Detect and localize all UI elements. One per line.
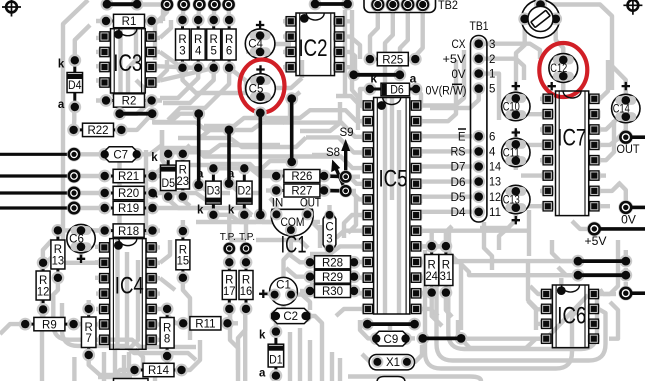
capacitor C7: [98, 148, 111, 161]
svg-text:R: R: [225, 275, 233, 287]
svg-text:13: 13: [489, 177, 501, 189]
capacitor C14: [612, 94, 640, 122]
wire vertical 3: [254, 107, 267, 120]
svg-text:D2: D2: [238, 186, 252, 198]
svg-text:C7: C7: [113, 150, 128, 162]
plus of C12: [548, 82, 556, 90]
resistor R22: [74, 128, 122, 131]
wire R26 to S9 pad: [324, 174, 346, 178]
resistor R5: [212, 20, 215, 68]
svg-text:D7: D7: [451, 162, 466, 174]
resistor R18: [105, 229, 153, 232]
svg-text:C1: C1: [276, 280, 291, 292]
svg-text:R26: R26: [291, 171, 312, 183]
wire right 2: [572, 269, 585, 282]
resistor R25: [370, 58, 415, 61]
plus of C11: [512, 128, 520, 136]
svg-text:R19: R19: [118, 203, 139, 215]
svg-text:R28: R28: [322, 258, 343, 270]
resistor R15: [181, 231, 184, 278]
diode D3: [212, 168, 215, 215]
plus of C10: [512, 82, 520, 90]
wire above IC2: [309, 0, 322, 10]
svg-text:IC2: IC2: [299, 35, 328, 62]
svg-text:6: 6: [489, 131, 495, 143]
capacitor C2: [270, 310, 283, 323]
svg-text:24: 24: [425, 271, 438, 283]
resistor R7: [87, 309, 90, 355]
voltage regulator IC1: [271, 209, 313, 236]
resistor R2: [106, 99, 152, 102]
via pad left 3: [67, 186, 81, 200]
plus of C4: [256, 21, 264, 29]
resistor R31: [444, 246, 447, 293]
svg-text:a: a: [151, 189, 158, 201]
svg-text:RS: RS: [451, 147, 466, 159]
plus of C14: [622, 82, 630, 90]
resistor R24: [430, 246, 433, 293]
svg-text:0V: 0V: [452, 69, 466, 81]
header pads top: [160, 0, 174, 12]
capacitor C12: [549, 54, 578, 83]
svg-text:D4: D4: [68, 80, 82, 92]
diode D1: [274, 332, 277, 376]
svg-text:k: k: [197, 204, 204, 216]
via pad left 2: [67, 169, 81, 183]
svg-text:0V(R/W): 0V(R/W): [426, 86, 467, 98]
svg-text:C10: C10: [503, 102, 520, 114]
svg-text:k: k: [370, 72, 377, 86]
capacitor C5: [246, 74, 276, 104]
resistor R13: [56, 230, 59, 277]
wire right of C9: [416, 332, 429, 345]
microcontroller IC5: [362, 102, 374, 109]
svg-text:23: 23: [177, 176, 190, 188]
svg-text:C14: C14: [613, 104, 630, 116]
svg-text:3: 3: [326, 234, 332, 246]
fiducial marker top-right: [623, 0, 642, 15]
svg-text:R: R: [39, 275, 47, 287]
svg-text:C2: C2: [283, 311, 298, 323]
capacitor C9: [370, 332, 383, 345]
resistor R21: [105, 175, 153, 178]
fiducial marker top-left: [2, 0, 21, 17]
svg-text:2: 2: [489, 54, 495, 66]
svg-text:R: R: [178, 34, 186, 46]
capacitor C11: [502, 138, 530, 166]
svg-text:C6: C6: [69, 234, 84, 246]
svg-text:17: 17: [223, 286, 236, 298]
svg-text:31: 31: [440, 271, 453, 283]
svg-text:15: 15: [177, 256, 190, 268]
resistor R27: [276, 189, 324, 192]
op-amp IC3: [98, 33, 110, 40]
OUT pad: [618, 130, 633, 145]
svg-text:R20: R20: [118, 188, 139, 200]
resistor R30: [310, 290, 354, 293]
svg-text:13: 13: [52, 255, 65, 267]
svg-text:11: 11: [489, 207, 501, 219]
svg-text:IC5: IC5: [379, 166, 408, 193]
svg-text:12: 12: [489, 192, 501, 204]
svg-text:TB2: TB2: [438, 0, 458, 12]
wire top-left: [101, 0, 114, 11]
svg-text:TB1: TB1: [470, 19, 489, 33]
resistor bottom edge partial: [114, 379, 149, 381]
wire vertical 2: [223, 123, 236, 136]
svg-text:3: 3: [489, 39, 495, 51]
svg-text:a: a: [410, 72, 417, 86]
svg-text:R2: R2: [122, 96, 137, 108]
svg-text:R: R: [194, 34, 202, 46]
resistor R6: [228, 20, 231, 68]
resistor R16: [245, 262, 248, 309]
via pad left 4: [67, 201, 81, 215]
red highlight ellipse around C5: [240, 60, 285, 113]
resistor R26: [276, 175, 324, 178]
resistor R19: [105, 207, 153, 210]
plus of C5: [256, 65, 264, 73]
via pad S9: [339, 170, 352, 183]
capacitor C1: [270, 277, 298, 305]
svg-text:5: 5: [210, 45, 216, 57]
svg-text:a: a: [259, 368, 266, 380]
wire from left edge 3: [0, 191, 74, 194]
capacitor C13: [502, 185, 530, 213]
svg-text:COM: COM: [281, 217, 305, 229]
svg-text:R1: R1: [122, 16, 137, 28]
svg-text:8: 8: [164, 334, 170, 346]
svg-text:14: 14: [489, 162, 502, 174]
via pad left 1: [67, 147, 81, 161]
svg-text:C12: C12: [550, 63, 567, 75]
capacitor C10: [502, 92, 530, 120]
svg-text:X1: X1: [386, 357, 400, 369]
svg-text:IC4: IC4: [115, 273, 144, 300]
plus of C6: [77, 255, 85, 263]
resistor R1: [106, 20, 152, 23]
driver IC7: [542, 95, 554, 102]
svg-text:R: R: [242, 275, 250, 287]
wire R27 to S8 pad: [324, 189, 346, 193]
svg-text:4: 4: [195, 45, 202, 57]
0V pad: [618, 200, 633, 215]
svg-text:D6: D6: [451, 177, 466, 189]
svg-text:OUT: OUT: [300, 198, 321, 210]
svg-text:R22: R22: [87, 125, 108, 137]
diode D5: [167, 154, 170, 197]
svg-text:R: R: [428, 260, 436, 272]
svg-text:7: 7: [85, 333, 91, 345]
svg-text:C13: C13: [503, 195, 520, 207]
svg-text:C11: C11: [503, 148, 520, 160]
resistor R8: [166, 309, 169, 356]
svg-text:R27: R27: [291, 186, 312, 198]
svg-text:R25: R25: [382, 54, 403, 66]
svg-text:R: R: [179, 244, 187, 256]
wire vertical 1: [192, 107, 205, 120]
svg-text:R: R: [179, 164, 187, 176]
op-amp IC2: [285, 18, 297, 25]
resistor R4: [197, 20, 200, 68]
svg-text:R11: R11: [195, 319, 215, 331]
+5V pad: [587, 222, 602, 237]
svg-text:R: R: [163, 322, 171, 334]
signal arrow S9: [344, 147, 347, 177]
wire from left edge 1: [0, 153, 74, 156]
svg-text:R18: R18: [118, 226, 139, 238]
svg-text:D5: D5: [451, 192, 466, 204]
red highlight ellipse around C12: [539, 43, 587, 97]
resistor R12: [42, 263, 45, 310]
svg-text:R: R: [210, 34, 218, 46]
svg-text:3: 3: [179, 45, 185, 57]
driver IC6: [540, 290, 552, 297]
svg-text:D6: D6: [390, 85, 404, 97]
resistor R23: [181, 154, 184, 197]
svg-text:R29: R29: [322, 272, 343, 284]
svg-text:IC3: IC3: [113, 50, 142, 77]
resistor R28: [310, 261, 354, 264]
svg-text:C: C: [325, 222, 333, 234]
svg-text:0V: 0V: [621, 213, 636, 227]
wire from left edge 4: [0, 206, 74, 209]
svg-text:S8: S8: [326, 147, 340, 159]
wire right 1: [572, 255, 585, 268]
svg-text:C9: C9: [384, 334, 399, 346]
via pad S8: [339, 184, 352, 197]
resistor R14: [135, 369, 182, 372]
op-amp IC4: [98, 244, 110, 251]
resistor R11: [183, 322, 227, 325]
capacitor C4: [245, 29, 275, 59]
svg-text:a: a: [58, 99, 65, 111]
svg-text:T.P.: T.P.: [220, 231, 236, 243]
svg-text:+5V: +5V: [585, 234, 607, 248]
wire from left edge 2: [0, 174, 74, 177]
svg-text:k: k: [151, 152, 158, 164]
svg-text:S9: S9: [339, 127, 353, 139]
svg-text:R14: R14: [148, 365, 170, 377]
capacitor bottom edge partial: [377, 377, 405, 381]
plus of C1: [259, 290, 267, 298]
svg-text:R: R: [442, 260, 450, 272]
output pad right bottom: [618, 286, 633, 301]
svg-text:T.P.: T.P.: [239, 231, 255, 243]
plus of C13: [512, 216, 520, 224]
svg-text:6: 6: [226, 45, 232, 57]
svg-text:+5V: +5V: [443, 54, 466, 66]
svg-text:D1: D1: [269, 355, 283, 367]
svg-text:k: k: [228, 204, 235, 216]
wire below IC5: [361, 318, 374, 331]
svg-text:R9: R9: [42, 319, 57, 331]
svg-text:IC6: IC6: [557, 303, 586, 330]
resistor R29: [310, 275, 354, 278]
svg-text:k: k: [259, 330, 266, 342]
diode D6: [364, 83, 377, 96]
connector TB2: [364, 0, 436, 13]
svg-text:R: R: [85, 322, 93, 334]
svg-text:D5: D5: [161, 178, 175, 190]
capacitor C3: [323, 212, 336, 253]
resistor R3: [181, 20, 184, 68]
svg-text:C5: C5: [249, 84, 264, 96]
svg-text:k: k: [58, 58, 65, 70]
svg-text:R21: R21: [118, 171, 139, 183]
diode D2: [243, 168, 246, 215]
wire below R2: [113, 107, 126, 120]
svg-text:CX: CX: [452, 39, 466, 51]
svg-text:D3: D3: [207, 186, 221, 198]
wire left of D6: [347, 68, 360, 81]
svg-text:R: R: [225, 34, 233, 46]
resistor R17: [228, 262, 231, 309]
svg-text:E: E: [458, 132, 466, 144]
svg-text:C4: C4: [248, 39, 263, 51]
wire vertical 4: [285, 92, 298, 105]
svg-text:IC1: IC1: [281, 231, 307, 258]
svg-text:IN: IN: [272, 198, 284, 210]
svg-text:R30: R30: [322, 286, 343, 298]
svg-text:IC7: IC7: [557, 125, 586, 152]
resistor R20: [105, 192, 153, 195]
svg-text:4: 4: [489, 147, 496, 159]
signal arrow S8: [335, 165, 346, 191]
trimmer potentiometer: [522, 0, 560, 38]
svg-text:1: 1: [489, 69, 495, 81]
svg-text:D4: D4: [451, 207, 467, 219]
capacitor C6: [67, 224, 95, 252]
svg-text:16: 16: [240, 286, 253, 298]
crystal X1: [369, 355, 414, 370]
svg-text:R: R: [54, 244, 62, 256]
resistor R9: [25, 323, 73, 326]
svg-text:5: 5: [489, 84, 495, 96]
svg-text:12: 12: [37, 286, 50, 298]
diode D4: [73, 60, 76, 107]
svg-text:OUT: OUT: [617, 142, 641, 156]
